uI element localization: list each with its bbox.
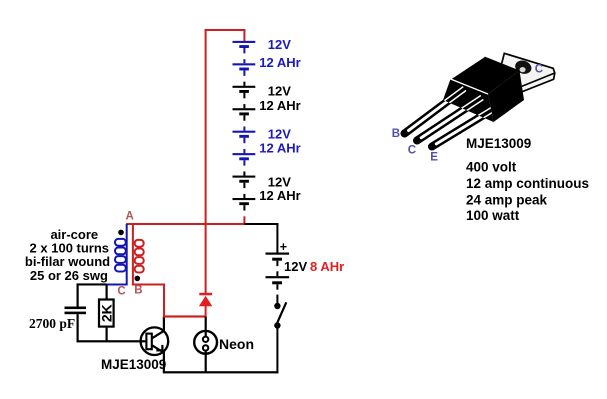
svg-text:MJE13009: MJE13009 bbox=[101, 357, 166, 372]
diode D1 bbox=[199, 293, 212, 318]
wire bbox=[126, 223, 245, 225]
svg-text:E: E bbox=[430, 151, 438, 163]
svg-text:8 AHr: 8 AHr bbox=[310, 259, 344, 274]
battery B4 12V 12AHr bbox=[233, 171, 301, 210]
wire bbox=[163, 315, 205, 317]
leg E bbox=[432, 113, 487, 146]
svg-text:2K: 2K bbox=[98, 304, 114, 322]
tab top/side divider bbox=[509, 73, 555, 92]
wire bbox=[243, 29, 245, 42]
svg-text:12V: 12V bbox=[268, 126, 291, 141]
svg-text:100 watt: 100 watt bbox=[466, 208, 520, 223]
svg-text:12 AHr: 12 AHr bbox=[259, 141, 300, 156]
svg-text:12 AHr: 12 AHr bbox=[259, 188, 300, 203]
wire bbox=[205, 29, 246, 31]
svg-text:A: A bbox=[126, 210, 134, 222]
TO-220 package drawing bbox=[392, 53, 555, 163]
wire (base rail) bbox=[77, 340, 147, 342]
svg-text:C: C bbox=[117, 286, 125, 298]
wire bbox=[205, 29, 207, 294]
switch S1 bbox=[274, 302, 286, 328]
svg-text:12V: 12V bbox=[284, 259, 307, 274]
svg-text:24 amp peak: 24 amp peak bbox=[466, 193, 548, 208]
transformer T1 primary (blue winding) bbox=[107, 224, 127, 285]
battery B2 12V 12AHr bbox=[233, 82, 301, 121]
svg-text:B: B bbox=[392, 128, 400, 140]
wire bbox=[244, 223, 278, 225]
svg-text:+: + bbox=[280, 240, 287, 254]
svg-text:MJE13009: MJE13009 bbox=[466, 136, 531, 151]
leg B bbox=[405, 98, 453, 134]
svg-text:25 or 26 swg: 25 or 26 swg bbox=[30, 268, 108, 283]
capacitor C1 bbox=[65, 284, 87, 342]
svg-text:C: C bbox=[408, 145, 416, 157]
svg-text:Neon: Neon bbox=[219, 336, 254, 352]
wire bbox=[77, 283, 107, 285]
svg-text:400 volt: 400 volt bbox=[466, 160, 517, 175]
battery B3 12V 12AHr bbox=[233, 126, 301, 165]
wire bbox=[276, 328, 278, 373]
metal tab bbox=[498, 53, 555, 95]
package body bbox=[451, 57, 520, 95]
transistor Q1 bbox=[141, 317, 169, 373]
wire bbox=[243, 216, 245, 225]
svg-text:12 AHr: 12 AHr bbox=[259, 55, 300, 70]
phasing dot bottom bbox=[135, 276, 141, 282]
tab hole bbox=[513, 58, 533, 76]
leg C bbox=[417, 106, 470, 141]
wire bbox=[163, 371, 279, 373]
transformer T1 secondary (red winding) bbox=[133, 224, 205, 317]
svg-text:B: B bbox=[134, 285, 142, 297]
spec text bbox=[466, 160, 589, 223]
resistor R1 bbox=[98, 285, 114, 342]
neon lamp bbox=[194, 317, 217, 373]
body highlight edges bbox=[451, 57, 485, 80]
svg-text:12V: 12V bbox=[268, 84, 291, 99]
svg-text:12 amp continuous: 12 amp continuous bbox=[466, 176, 589, 191]
battery B1 12V 12AHr bbox=[233, 37, 301, 76]
svg-text:12V: 12V bbox=[268, 37, 291, 52]
svg-text:12 AHr: 12 AHr bbox=[259, 98, 300, 113]
phasing dot top bbox=[118, 230, 124, 236]
wire bbox=[276, 223, 278, 253]
battery B5 12V 8AHr bbox=[266, 240, 345, 303]
coil note text bbox=[25, 227, 110, 283]
svg-text:C: C bbox=[535, 63, 543, 75]
svg-text:2700 pF: 2700 pF bbox=[29, 316, 75, 331]
